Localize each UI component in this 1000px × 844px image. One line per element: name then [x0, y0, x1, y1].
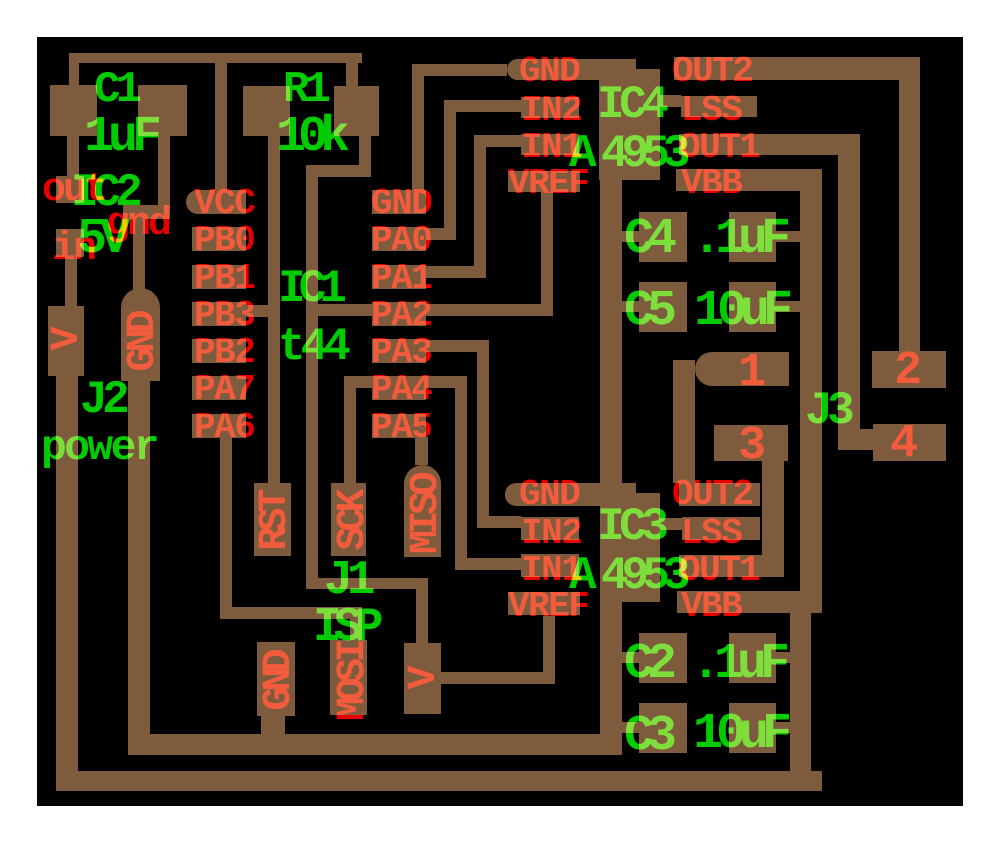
IC3 pad VBB	[677, 591, 822, 613]
IC1 pad PA7	[192, 376, 246, 400]
IC4 pad IN1	[521, 134, 579, 155]
pin label J1 V	[405, 670, 445, 689]
label C2	[624, 640, 670, 690]
wire R1 pad2 down	[359, 136, 371, 177]
pin label IC3 IN1	[521, 553, 581, 589]
wire PA4 to SCK	[344, 388, 356, 483]
pin label J3 4	[890, 421, 918, 468]
pin label IC1 PA6	[194, 410, 254, 446]
pin label IC1 PB0	[194, 223, 254, 259]
IC3 pad LSS	[682, 517, 760, 540]
resistor R1 pad1	[243, 86, 290, 136]
label C1	[94, 68, 137, 112]
IC4 LSS link	[655, 95, 681, 107]
IC3 pad IN1	[521, 554, 579, 577]
capacitor C2 pad1	[639, 633, 687, 683]
wire PA6 vertical	[220, 424, 232, 619]
capacitor C1 pad1	[50, 85, 97, 136]
pin label IC1 PA1	[371, 261, 431, 297]
IC4 pad OUT2 and wire to J3 2	[674, 57, 920, 80]
pin label J1 SCK	[334, 493, 374, 550]
label IC2 value	[77, 215, 123, 265]
wire PA4 vertical	[455, 376, 467, 570]
label J2	[80, 377, 124, 423]
wire 5V top horizontal	[69, 53, 362, 63]
wire C3 pad1 to tab	[621, 722, 639, 733]
wire PA5 to MISO	[415, 437, 428, 465]
IC1 pad PA0	[372, 227, 426, 251]
label IC1 value	[278, 324, 346, 370]
capacitor C5 pad1	[639, 282, 687, 332]
pin label IC2 in	[52, 230, 94, 270]
pin label IC3 GND	[519, 477, 579, 513]
IC3 pad VREF	[508, 592, 580, 615]
IC3 pad OUT1	[679, 555, 784, 577]
label J3	[805, 388, 849, 434]
wire PB3 stub to RESET	[246, 305, 280, 317]
capacitor C4 pad1	[639, 212, 687, 262]
IC1 pad PA6	[192, 414, 246, 438]
wire PA1 to IC4 IN1	[474, 135, 521, 147]
pin label IC4 VREF	[508, 166, 588, 202]
wire C4 pad2 to VBB	[776, 231, 801, 242]
wire 5V drop to R1 pad2	[346, 63, 358, 86]
wire 5V drop to C1 pad1	[69, 63, 79, 85]
label IC3	[597, 504, 663, 550]
pin label IC4 VBB	[681, 166, 741, 202]
wire C3 pad2 to VBB	[776, 722, 791, 733]
pin label IC1 PA3	[371, 335, 431, 371]
connector J3 pad 3	[714, 425, 788, 461]
wire C2 pad2 to VBB	[776, 652, 791, 663]
label IC4 value A	[569, 131, 597, 177]
label IC2	[71, 170, 137, 216]
wire bottom V rail	[57, 771, 822, 791]
IC1 pad PB2	[192, 339, 246, 363]
pin label IC1 PA5	[371, 410, 431, 446]
IC1 pad PB3	[192, 302, 246, 326]
connector J3 pad 4	[873, 424, 946, 461]
label C4 value	[692, 215, 784, 265]
pin label IC1 PA2	[371, 298, 431, 334]
capacitor C3 pad2	[729, 703, 776, 753]
IC1 pad PB1	[192, 265, 246, 289]
IC3 pad IN2	[521, 517, 579, 540]
wire IC1 GND to IC4 GND	[412, 64, 507, 76]
pin label J1 MOSI	[334, 643, 374, 721]
wire IC4 tab to IC3 tab	[600, 180, 622, 488]
capacitor C5 pad2	[729, 282, 776, 332]
label C2 value	[691, 640, 783, 690]
pin label IC3 VREF	[508, 589, 588, 625]
label C1 value	[84, 113, 156, 163]
label J1	[324, 557, 370, 605]
regulator IC2 pin in pad	[56, 229, 84, 257]
pin label IC1 PB2	[194, 335, 254, 371]
wire C5 pad2 to VBB	[776, 301, 801, 312]
connector J1 pad V	[404, 643, 441, 714]
IC3 thermal tab	[600, 493, 660, 602]
label IC3 value	[601, 553, 683, 599]
pin label J3 1	[738, 350, 766, 397]
wire J3 3 to IC3 OUT1	[762, 461, 784, 555]
wire IC2 in to J2 V	[65, 257, 77, 306]
label C5	[624, 287, 670, 337]
pin label J1 MISO	[407, 476, 447, 554]
regulator IC2 pin out pad	[56, 176, 84, 203]
label IC4 value	[601, 131, 683, 177]
label J2 value	[41, 426, 157, 469]
wire J2 V to bottom rail	[56, 376, 78, 791]
wire J1 V to IC3 VREF horizontal	[441, 672, 555, 684]
wire PA3 vertical	[477, 340, 489, 528]
label IC3 value A	[569, 553, 597, 599]
wire PA3 stub	[426, 340, 489, 352]
pin label IC1 GND	[371, 186, 431, 222]
wire PA1 vertical	[474, 135, 486, 278]
wire C4 pad1 to tab	[621, 231, 639, 242]
IC3 pad OUT2	[679, 483, 760, 506]
label C5 value	[694, 287, 786, 337]
wire J1 GND neck	[261, 716, 285, 734]
connector J1 pad RST	[254, 483, 291, 556]
wire 5V drop to IC1 VCC	[215, 63, 227, 190]
label C4	[624, 215, 670, 265]
pin label J1 GND	[260, 653, 300, 710]
wire C5 pad1 to tab	[621, 301, 639, 312]
wire PA0 stub	[426, 228, 456, 240]
pin label IC2 gnd	[106, 205, 169, 245]
pin label IC4 OUT2	[672, 54, 752, 90]
wire OUT1 down to J3 4	[838, 155, 860, 429]
wire IC3 tab to ground rail	[600, 602, 622, 755]
wire IC2 gnd to J2 GND	[133, 218, 145, 290]
pin label IC4 IN2	[521, 93, 581, 129]
capacitor C4 pad2	[729, 212, 776, 262]
IC4 pad LSS	[681, 96, 757, 117]
IC1 pad VCC	[186, 190, 246, 214]
label IC1	[278, 266, 340, 312]
pin label IC4 OUT1	[679, 130, 759, 166]
wire C1 pad2 down to IC2 gnd	[158, 136, 170, 218]
IC1 pad PA3	[372, 339, 426, 363]
pin label IC3 VBB	[681, 589, 741, 625]
pin label IC1 VCC	[194, 186, 254, 222]
IC4 pad OUT1 and wire	[679, 134, 860, 155]
pin label IC4 IN1	[521, 130, 581, 166]
wire PA1 stub	[426, 266, 486, 278]
pin label J2 GND	[124, 314, 164, 371]
pin label IC3 IN2	[521, 516, 581, 552]
pin label J2 V	[48, 331, 88, 350]
pin label IC2 out	[42, 171, 105, 211]
IC4 pad VREF	[508, 171, 580, 192]
wire C1 pad1 to IC2 out	[67, 136, 79, 176]
pin label IC1 PA0	[371, 223, 431, 259]
wire PA0 vertical	[444, 100, 456, 240]
connector J1 pad SCK	[331, 483, 366, 556]
pin label IC1 PB1	[194, 261, 254, 297]
connector J1 pad MOSI	[330, 640, 367, 715]
label C3	[624, 712, 670, 762]
capacitor C2 pad2	[729, 633, 776, 683]
capacitor C3 pad1	[639, 703, 687, 753]
IC1 pad PA5	[372, 414, 426, 438]
wire PA4 horizontal	[344, 376, 467, 388]
label J1 value	[313, 604, 375, 652]
wire RESET R1 pad1 to RST	[268, 136, 280, 483]
wire OUT2 down to J3 2	[899, 80, 920, 351]
IC1 pad PA2	[372, 302, 426, 326]
wire C2 pad1 to tab	[621, 652, 639, 663]
wire PA2 to IC4 VREF horizontal	[306, 304, 553, 316]
pin label IC4 GND	[519, 54, 579, 90]
wire VCC horizontal to V	[306, 578, 428, 589]
wire J1 V to IC3 VREF vertical	[543, 616, 555, 684]
pin label IC1 PA7	[194, 372, 254, 408]
pin label IC1 PB3	[194, 298, 254, 334]
wire VBB lower vertical	[790, 613, 811, 791]
wire VCC vertical	[306, 165, 318, 589]
IC1 pad GND	[372, 190, 426, 214]
connector J1 pad GND	[257, 642, 295, 716]
label IC4	[597, 82, 663, 128]
wire PA4 to IC3 IN1	[455, 558, 521, 570]
IC4 pad GND	[507, 59, 636, 80]
IC3 thermal tab upper	[600, 488, 636, 602]
pin label IC3 OUT2	[672, 477, 752, 513]
wire IC1 GND up	[412, 64, 424, 190]
IC1 pad PA4	[372, 376, 426, 400]
pin label J1 RST	[256, 493, 296, 550]
IC4 pad IN2	[521, 97, 579, 118]
wire J3 1 to IC3 OUT2	[673, 360, 695, 483]
regulator IC2 pin gnd pad	[123, 205, 170, 219]
IC3 pad GND	[505, 483, 636, 506]
IC4 pad VBB and wire	[676, 169, 822, 191]
connector J2 pin V pad	[48, 306, 84, 376]
connector J2 pin GND pad	[121, 288, 160, 381]
pin label IC3 LSS	[681, 516, 741, 552]
wire PA3 to IC3 IN2	[477, 516, 521, 528]
pin label J3 3	[738, 423, 766, 470]
pin label IC4 LSS	[681, 93, 741, 129]
IC1 pad PB0	[192, 227, 246, 251]
wire R1 pad2 corner	[306, 165, 371, 177]
wire IC4 VREF vertical	[541, 192, 553, 316]
wire VCC drop to J1 V	[416, 578, 428, 643]
connector J3 pad 2	[872, 351, 946, 388]
resistor R1 pad2	[334, 86, 379, 136]
connector J3 pad 1	[695, 352, 789, 386]
wire J2 GND to ground rail	[128, 381, 150, 755]
IC4 thermal tab	[599, 69, 660, 180]
label R1 value	[276, 113, 342, 163]
label R1	[283, 68, 326, 112]
wire PA0 to IC4 IN2	[444, 100, 521, 112]
wire VBB vertical	[800, 169, 822, 592]
connector J1 pad MISO	[404, 465, 441, 557]
wire PA6 to MOSI	[350, 619, 362, 642]
pin label J3 2	[894, 348, 922, 395]
IC3 LSS link	[655, 518, 682, 530]
wire PA6 horizontal	[220, 607, 362, 619]
wire OUT1 to J3 4 link	[838, 429, 873, 450]
capacitor C1 pad2	[138, 85, 187, 136]
label C3 value	[693, 710, 785, 760]
pin label IC1 PA4	[371, 372, 431, 408]
IC1 pad PA1	[372, 265, 426, 289]
pin label IC3 OUT1	[679, 553, 759, 589]
wire ground rail	[128, 734, 622, 755]
